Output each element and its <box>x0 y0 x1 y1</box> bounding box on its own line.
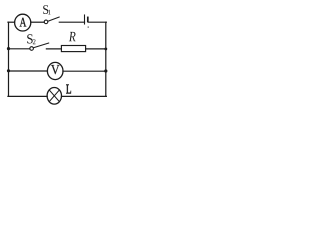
right vertical wire <box>105 22 107 96</box>
node junction left S2 row <box>7 47 10 50</box>
wire resistor to right <box>86 48 106 50</box>
switch S1 terminal <box>44 20 48 24</box>
wire S1 to battery <box>59 21 84 23</box>
node junction right V row <box>104 69 107 72</box>
label S1 S <box>43 5 48 14</box>
node junction right S2 row <box>104 47 107 50</box>
label L <box>66 85 71 94</box>
label S2 S <box>27 34 33 43</box>
voltmeter V <box>47 62 63 79</box>
left vertical wire <box>8 22 10 96</box>
label S2 sub2 <box>33 39 36 44</box>
wire top-left stub <box>8 21 15 23</box>
battery short plate <box>87 17 89 21</box>
battery long plate <box>84 15 86 24</box>
wire battery to right corner <box>89 21 107 23</box>
switch S2 terminal <box>30 47 34 51</box>
label R <box>69 32 76 41</box>
wire S2 to resistor <box>46 48 61 50</box>
lamp L circle <box>47 88 61 105</box>
label A <box>20 18 27 27</box>
switch S1 blade <box>48 17 59 21</box>
wire left to voltmeter <box>9 70 48 72</box>
node junction left V row <box>7 69 10 72</box>
lamp cross diagonal 1 <box>49 90 59 102</box>
ammeter A <box>15 14 31 31</box>
switch S2 blade <box>33 43 48 48</box>
stray mark <box>88 26 89 27</box>
lamp cross diagonal 2 <box>49 90 59 102</box>
label V <box>51 65 59 74</box>
wire left to lamp <box>8 95 47 97</box>
label S1 sub1 <box>48 10 51 15</box>
wire voltmeter to right <box>63 70 106 72</box>
wire left to S2 <box>9 48 30 50</box>
wire lamp to right <box>62 95 107 97</box>
wire ammeter to S1 <box>31 21 44 23</box>
resistor R box <box>61 46 85 52</box>
